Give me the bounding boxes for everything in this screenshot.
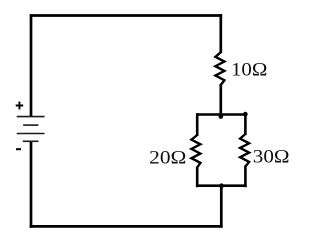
resistor 10Ω zigzag [215, 52, 224, 85]
wire right branch upper (to 30-ohm) [244, 114, 247, 135]
node junction dot bottom of parallel section [219, 183, 224, 188]
wire from bottom junction down to bottom rail [220, 186, 223, 228]
battery + polarity symbol [16, 102, 24, 110]
wire parallel-top horizontal [197, 113, 246, 116]
node junction dot below 10-ohm [218, 114, 223, 119]
svg-text:20Ω: 20Ω [149, 147, 186, 168]
wire parallel-bottom horizontal [196, 184, 247, 187]
battery plate 2 short [23, 124, 38, 126]
wire left branch upper (to 20-ohm) [196, 113, 199, 136]
wire left vertical (battery - terminal down to bottom-left corner) [30, 141, 33, 227]
battery plate 1 long (+) [17, 116, 45, 118]
resistor 30Ω zigzag [240, 134, 249, 167]
svg-text:30Ω: 30Ω [253, 147, 290, 168]
wire right branch lower (from 30-ohm to bottom of parallel) [244, 166, 247, 188]
resistor 20Ω zigzag [191, 135, 200, 168]
svg-text:10Ω: 10Ω [231, 59, 267, 80]
battery plate 3 long [17, 133, 45, 135]
wire bottom horizontal [30, 225, 223, 228]
wire top horizontal [30, 14, 223, 17]
node dot top-right of parallel section [243, 112, 248, 117]
battery - polarity symbol [16, 148, 21, 150]
battery plate 4 short (-) [23, 140, 39, 142]
wire right vertical down to 10-ohm resistor [219, 14, 222, 53]
wire left vertical (battery + terminal up to top-left corner) [30, 16, 33, 117]
wire from 10-ohm resistor down to parallel node [219, 84, 222, 116]
wire left branch lower (from 20-ohm to bottom of parallel) [196, 167, 199, 188]
